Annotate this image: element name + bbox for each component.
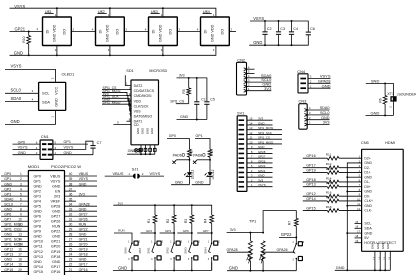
resistor R12	[326, 162, 339, 170]
resistor R10	[22, 32, 31, 56]
connector CN5 HDMI	[361, 140, 403, 251]
svg-text:R11: R11	[326, 153, 332, 157]
svg-text:SV1: SV1	[237, 111, 244, 116]
net GP18 wire	[303, 178, 328, 182]
svg-text:3V3: 3V3	[118, 201, 124, 205]
svg-text:GP28: GP28	[51, 204, 60, 208]
svg-text:GP3: GP3	[4, 192, 11, 196]
svg-text:RST: RST	[138, 247, 142, 253]
CN5 pin 18 stub	[355, 234, 362, 238]
wire DO stub U$4	[229, 27, 236, 31]
svg-text:D0-: D0-	[364, 194, 369, 198]
switch SW2	[166, 233, 183, 270]
svg-text:PICO2/PICO2 W: PICO2/PICO2 W	[51, 164, 81, 169]
net GP12 Pico pin 16	[1, 248, 28, 252]
net GP13 wire	[303, 183, 328, 187]
svg-text:35: 35	[69, 197, 73, 201]
LED LED11	[184, 160, 195, 185]
svg-text:R1: R1	[147, 219, 151, 223]
resistor R8	[188, 149, 194, 160]
svg-text:C1: C1	[201, 97, 206, 101]
svg-text:4: 4	[20, 187, 22, 191]
svg-text:CLK-: CLK-	[364, 209, 372, 213]
Pico pin 35 stub	[65, 197, 77, 201]
svg-text:GND: GND	[376, 243, 380, 249]
svg-text:GND: GND	[14, 50, 23, 55]
svg-text:GP2: GP2	[34, 189, 41, 193]
svg-text:3V3: 3V3	[179, 74, 185, 78]
svg-text:27: 27	[69, 238, 73, 242]
svg-text:30: 30	[69, 223, 73, 227]
svg-text:SW2: SW2	[166, 247, 170, 254]
svg-text:SD1: SD1	[126, 69, 133, 73]
svg-text:DO: DO	[116, 29, 120, 35]
net GND to CN1 left	[13, 151, 41, 155]
svg-text:GPA28: GPA28	[227, 248, 238, 252]
svg-text:GND: GND	[364, 204, 372, 208]
net GND Pico pin 18	[1, 258, 28, 262]
svg-text:R3: R3	[184, 219, 188, 223]
svg-text:VDD: VDD	[106, 24, 110, 32]
svg-text:VDD: VDD	[53, 24, 57, 32]
addressable LED U$3	[149, 9, 178, 52]
svg-text:9: 9	[20, 212, 22, 216]
HDMI shield GND bus	[346, 159, 361, 271]
net VSYS from CN1 to C7	[53, 141, 93, 150]
svg-text:SDA0: SDA0	[11, 96, 22, 101]
net GPA28 from CN4	[308, 78, 331, 83]
svg-text:GP3: GP3	[34, 194, 41, 198]
svg-text:GP12: GP12	[4, 248, 13, 252]
net GP15 Pico pin 20	[1, 268, 28, 272]
svg-text:GP1: GP1	[196, 134, 203, 138]
net GP15 wire	[303, 206, 328, 210]
wire to CN5	[339, 197, 362, 201]
sounder XT1	[387, 83, 416, 115]
net GND from CN4	[308, 83, 331, 88]
svg-text:GP17: GP17	[306, 164, 315, 168]
svg-text:26: 26	[69, 243, 73, 247]
svg-text:SW6: SW6	[124, 247, 128, 254]
svg-text:19: 19	[18, 263, 22, 267]
svg-text:SPI1_CS: SPI1_CS	[170, 99, 185, 103]
svg-text:R6: R6	[378, 98, 382, 102]
svg-text:GND: GND	[258, 174, 264, 178]
svg-text:GP7: GP7	[203, 229, 209, 233]
net GND SD bottom	[127, 145, 156, 155]
svg-text:R9: R9	[210, 150, 214, 154]
svg-text:GND: GND	[371, 111, 380, 116]
svg-text:VDD: VDD	[159, 24, 163, 32]
svg-text:GP15: GP15	[4, 268, 13, 272]
net SPI1_MOSI from SV1 pin 13	[247, 126, 282, 130]
svg-text:38: 38	[69, 182, 73, 186]
svg-text:GND: GND	[18, 151, 27, 155]
svg-text:GP1: GP1	[4, 177, 11, 181]
net VBUS Pico pin 40	[65, 172, 98, 176]
svg-text:GP15: GP15	[306, 206, 315, 210]
wire to CN5	[339, 207, 362, 211]
svg-text:GP8: GP8	[34, 225, 41, 229]
svg-text:GP6: GP6	[183, 229, 189, 233]
net GND from CN1	[53, 151, 93, 155]
net GND bottom rail	[10, 46, 216, 57]
svg-text:DO: DO	[169, 29, 173, 35]
svg-text:R15: R15	[326, 181, 332, 185]
svg-text:15: 15	[18, 243, 22, 247]
svg-text:SCL0: SCL0	[320, 111, 330, 115]
svg-text:VSYS: VSYS	[258, 183, 266, 187]
net GND from SV1 pin 14	[247, 121, 273, 125]
svg-text:GP27: GP27	[258, 155, 266, 159]
svg-text:GND: GND	[34, 184, 43, 188]
svg-text:12: 12	[249, 131, 253, 135]
net GP0 wire	[167, 134, 189, 149]
svg-text:CLK+: CLK+	[364, 199, 373, 203]
svg-text:13: 13	[18, 233, 22, 237]
svg-text:R16: R16	[326, 191, 332, 195]
svg-text:DI: DI	[152, 30, 156, 34]
svg-text:3V3: 3V3	[54, 194, 61, 198]
svg-text:GP0: GP0	[4, 172, 11, 176]
resistor R5	[182, 78, 191, 104]
svg-text:D1+: D1+	[364, 171, 370, 175]
net GND Pico pin 38	[65, 182, 98, 186]
net SCL0 Pico pin 7	[1, 202, 28, 206]
net GP19 Pico pin 25	[65, 248, 98, 252]
svg-text:GND: GND	[64, 151, 73, 155]
test point TP1 label	[249, 219, 257, 224]
svg-text:D0+: D0+	[364, 185, 370, 189]
svg-text:10: 10	[18, 217, 22, 221]
svg-text:GP0: GP0	[34, 174, 41, 178]
net GP28 from SV1 pin 8	[247, 150, 273, 154]
svg-text:RUN: RUN	[52, 225, 60, 229]
svg-text:25: 25	[69, 248, 73, 252]
net 3V3 from SV1 pin 2	[247, 178, 273, 182]
net VSYS to CN1 left	[13, 146, 41, 150]
net GND wire to SD	[102, 98, 131, 111]
module MOD1 PICO2/PICO2 W	[28, 164, 81, 275]
wire to CN5	[339, 155, 362, 159]
svg-text:EN: EN	[55, 189, 60, 193]
svg-text:GP16: GP16	[51, 270, 60, 274]
net GP21 wire	[10, 26, 43, 32]
capacitor C7	[90, 141, 101, 155]
svg-text:DAT2: DAT2	[134, 84, 143, 88]
net GP6 stub	[177, 229, 192, 234]
svg-text:VSYS: VSYS	[64, 146, 74, 150]
svg-text:GND: GND	[79, 233, 87, 237]
svg-text:17: 17	[18, 253, 22, 257]
svg-text:CN4: CN4	[297, 69, 306, 74]
net VSYS to OLED	[5, 64, 56, 83]
net GP21 Pico pin 27	[65, 238, 98, 242]
svg-text:C7: C7	[97, 141, 102, 145]
svg-text:10: 10	[357, 197, 360, 201]
svg-text:36: 36	[69, 192, 73, 196]
svg-text:12: 12	[18, 228, 22, 232]
svg-text:SDA: SDA	[42, 100, 50, 105]
svg-text:D1-: D1-	[364, 180, 369, 184]
svg-text:GP18: GP18	[51, 255, 60, 259]
net GND from SV1 pin 9	[247, 145, 273, 149]
connector CN1	[40, 134, 53, 159]
capacitor C5	[204, 97, 215, 119]
switch SW4	[203, 233, 220, 270]
net GP27 from SV1 pin 7	[247, 155, 273, 159]
svg-text:GND: GND	[386, 243, 390, 249]
net SCL0 from CN2	[247, 77, 273, 82]
resistor R14	[326, 176, 339, 184]
svg-text:GP14: GP14	[4, 263, 13, 267]
net SPI1_CS wire to SD	[102, 86, 131, 91]
pin 1 DAT2 stub	[125, 75, 131, 85]
svg-text:CD: CD	[134, 123, 140, 127]
svg-text:GP26: GP26	[79, 217, 88, 221]
net 3V3 from SV1 pin 15	[247, 117, 273, 121]
svg-text:VDD: VDD	[134, 99, 142, 103]
svg-text:PAD8: PAD8	[193, 153, 202, 157]
net GP21 from SV1 pin 4	[247, 169, 273, 173]
svg-text:GP21: GP21	[258, 169, 266, 173]
svg-text:GP2: GP2	[4, 187, 11, 191]
svg-text:1: 1	[20, 172, 22, 176]
svg-text:R14: R14	[326, 176, 332, 180]
switch SW6 RST	[124, 241, 143, 271]
svg-text:VDD: VDD	[211, 24, 215, 32]
net 3V3 wire to SD	[102, 92, 131, 101]
svg-text:GND: GND	[34, 235, 43, 239]
svg-text:11: 11	[249, 136, 252, 140]
svg-text:R13: R13	[326, 167, 332, 171]
svg-text:R2: R2	[166, 219, 170, 223]
net GP22 Pico pin 29	[65, 228, 98, 232]
svg-text:SCL0: SCL0	[4, 202, 13, 206]
svg-text:SDA0: SDA0	[4, 197, 13, 201]
addressable LED U$4	[201, 9, 230, 52]
svg-text:MOD1: MOD1	[28, 164, 40, 169]
net SPI1_SCK from SV1 pin 12	[247, 131, 282, 135]
svg-text:GP7: GP7	[4, 217, 11, 221]
svg-text:GP18: GP18	[306, 178, 315, 182]
svg-text:GP9: GP9	[34, 230, 41, 234]
svg-text:GND: GND	[258, 145, 264, 149]
svg-text:GP13: GP13	[306, 183, 315, 187]
svg-text:SCL: SCL	[42, 91, 50, 96]
svg-text:GND: GND	[52, 260, 61, 264]
net GND sensor rail	[227, 266, 296, 272]
svg-text:GND: GND	[364, 161, 372, 165]
resistor R18	[326, 205, 339, 213]
svg-text:GND: GND	[364, 175, 372, 179]
pin 8 DAT1 stub	[127, 117, 132, 121]
net GP18 Pico pin 24	[65, 253, 98, 257]
net GP6 Pico pin 9	[1, 212, 28, 216]
net GP3 stub	[160, 229, 175, 234]
connector CN3	[299, 99, 309, 130]
net GPA28 stub	[227, 248, 252, 253]
svg-text:6: 6	[20, 197, 22, 201]
svg-text:11: 11	[357, 202, 360, 206]
svg-text:GP22: GP22	[79, 228, 88, 232]
switch SW5	[292, 237, 305, 270]
svg-text:12: 12	[357, 207, 360, 211]
svg-text:R10: R10	[22, 36, 26, 42]
svg-text:DAT0/MISO: DAT0/MISO	[134, 115, 153, 119]
svg-text:GND: GND	[106, 33, 110, 42]
svg-text:GND: GND	[118, 265, 127, 270]
svg-text:15: 15	[249, 117, 253, 121]
net SPI1_MISO Pico pin 11	[1, 223, 28, 227]
wire to CN5	[339, 164, 362, 168]
svg-text:GND: GND	[52, 184, 61, 188]
capacitor C4	[289, 21, 298, 45]
svg-text:GND: GND	[4, 233, 12, 237]
svg-text:SW3: SW3	[183, 247, 187, 254]
svg-text:3: 3	[20, 182, 22, 186]
svg-text:GP26: GP26	[51, 220, 60, 224]
svg-text:GP11: GP11	[34, 245, 43, 249]
net GP17 wire	[303, 164, 328, 168]
svg-text:8: 8	[20, 207, 22, 211]
connector SV1	[237, 111, 247, 192]
svg-text:GP19: GP19	[51, 250, 60, 254]
svg-text:33: 33	[69, 207, 73, 211]
capacitor C6	[306, 27, 315, 35]
capacitor C3	[276, 21, 285, 45]
svg-text:GP14: GP14	[34, 265, 43, 269]
net SPI1_MOSI wire to SD	[102, 89, 131, 96]
net RUN Pico pin 30	[65, 223, 98, 227]
net GND Pico pin 33	[65, 207, 98, 211]
svg-text:21: 21	[69, 268, 73, 272]
svg-text:GND: GND	[195, 181, 204, 185]
net SPI1_MOSI Pico pin 15	[1, 243, 28, 247]
svg-text:GP22: GP22	[258, 164, 266, 168]
svg-text:GND: GND	[364, 190, 372, 194]
svg-text:GND: GND	[11, 119, 20, 124]
svg-text:C6: C6	[310, 27, 315, 31]
net GP22 wire	[279, 232, 297, 238]
net 3V3 button rail	[113, 201, 211, 215]
svg-text:VBUS: VBUS	[79, 172, 89, 176]
switch SW3	[183, 233, 200, 270]
net GPA28 Pico pin 34	[65, 202, 98, 206]
net GP19 wire	[303, 168, 328, 172]
net GP2 stub	[141, 229, 156, 234]
svg-text:SPI1_MISO: SPI1_MISO	[258, 140, 274, 144]
svg-text:16: 16	[355, 225, 358, 229]
svg-text:GPA26: GPA26	[277, 248, 288, 252]
svg-text:R17: R17	[326, 195, 332, 199]
svg-text:39: 39	[69, 177, 73, 181]
svg-text:GP16: GP16	[79, 268, 88, 272]
svg-text:GND: GND	[381, 243, 385, 249]
net GP0 to CN1 left	[13, 140, 41, 144]
svg-text:SND: SND	[371, 78, 380, 83]
svg-text:2: 2	[20, 177, 22, 181]
svg-text:SPI1_MISO: SPI1_MISO	[103, 101, 121, 105]
net GP26 Pico pin 31	[65, 217, 98, 221]
svg-text:14: 14	[18, 238, 22, 242]
wire DO-DI	[71, 27, 95, 31]
svg-text:GND: GND	[4, 182, 12, 186]
net SPI1_CS from SV1 pin 11	[247, 136, 282, 140]
svg-text:GND: GND	[141, 128, 145, 134]
svg-text:GND: GND	[79, 207, 87, 211]
net GND HDMI bottom	[335, 251, 392, 271]
net 3V3 sensor wire	[227, 228, 264, 233]
svg-text:13: 13	[249, 126, 253, 130]
net GP1 wire	[195, 134, 210, 149]
svg-text:SJ1: SJ1	[132, 166, 139, 171]
resistor R11	[326, 153, 339, 161]
connector CN2	[237, 58, 249, 95]
svg-text:37: 37	[69, 187, 73, 191]
net SPI1_CS stub	[170, 99, 189, 103]
svg-text:C4: C4	[293, 27, 298, 31]
svg-text:34: 34	[69, 202, 73, 206]
svg-text:GP26: GP26	[258, 159, 266, 163]
net GP17 Pico pin 22	[65, 263, 98, 267]
net GND button rail	[113, 262, 212, 271]
svg-text:17: 17	[357, 230, 360, 234]
net SCL0 wire	[5, 88, 39, 94]
svg-text:SCL0: SCL0	[11, 88, 22, 93]
svg-text:7: 7	[20, 202, 22, 206]
svg-text:3V3: 3V3	[264, 86, 272, 91]
svg-text:R12: R12	[326, 162, 332, 166]
svg-text:GP17: GP17	[79, 263, 88, 267]
resistor R17	[326, 195, 339, 203]
svg-text:TP1: TP1	[249, 219, 257, 224]
svg-text:GP19: GP19	[79, 248, 88, 252]
net GP22 from SV1 pin 5	[247, 164, 273, 168]
resistor R13	[326, 167, 339, 175]
svg-text:GND: GND	[4, 258, 12, 262]
svg-text:GP10: GP10	[34, 240, 43, 244]
net SDA0 from CN3	[307, 106, 329, 110]
svg-text:GND: GND	[52, 210, 61, 214]
svg-text:SPI1_CS: SPI1_CS	[4, 228, 19, 232]
svg-text:SPI1_MOSI: SPI1_MOSI	[258, 126, 273, 130]
svg-text:DI: DI	[99, 30, 103, 34]
svg-text:HDMI: HDMI	[385, 140, 395, 145]
net SDA0 from CN2	[247, 73, 273, 78]
svg-text:GND: GND	[34, 260, 43, 264]
svg-text:DI: DI	[46, 30, 50, 34]
svg-text:SW1: SW1	[147, 247, 151, 254]
svg-text:16: 16	[18, 248, 22, 252]
net GND rail (SD caps)	[177, 115, 207, 120]
svg-text:GND: GND	[4, 207, 12, 211]
svg-text:GND: GND	[258, 121, 264, 125]
svg-text:CLK/SCK: CLK/SCK	[134, 104, 150, 108]
OLED display OLED1	[39, 72, 75, 111]
svg-text:GND: GND	[229, 266, 238, 271]
net GND Pico pin 8	[1, 207, 28, 211]
net 3V3 rail (SD)	[177, 74, 207, 102]
wire DO-DI	[124, 27, 148, 31]
net GP16 wire	[303, 154, 328, 158]
svg-text:GP0: GP0	[18, 140, 25, 144]
svg-text:GND: GND	[150, 128, 154, 134]
svg-text:GP19: GP19	[306, 168, 315, 172]
svg-text:GP21: GP21	[79, 238, 88, 242]
svg-text:GND: GND	[55, 98, 59, 107]
svg-text:R4: R4	[204, 219, 208, 223]
